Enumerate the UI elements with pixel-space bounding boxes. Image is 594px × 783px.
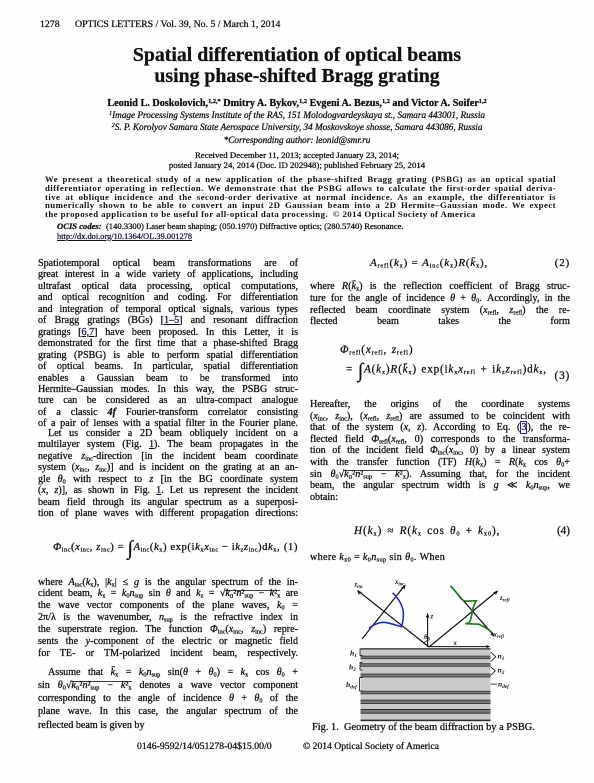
svg-text:xinc: xinc	[394, 579, 405, 588]
svg-text:x: x	[453, 640, 458, 647]
svg-text:h1: h1	[350, 649, 357, 660]
svg-text:ndef: ndef	[498, 680, 510, 691]
svg-text:n2: n2	[498, 666, 505, 677]
svg-text:hdef: hdef	[346, 680, 358, 691]
svg-text:h2: h2	[349, 663, 356, 674]
svg-text:xrefl: xrefl	[493, 632, 505, 641]
svg-text:θ0: θ0	[424, 633, 431, 643]
svg-text:zrefl: zrefl	[499, 595, 510, 604]
svg-text:z: z	[430, 614, 434, 621]
svg-text:zinc: zinc	[354, 582, 365, 591]
svg-text:n1: n1	[498, 652, 505, 663]
